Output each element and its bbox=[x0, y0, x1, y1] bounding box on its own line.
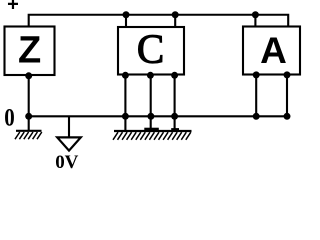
svg-text:C: C bbox=[137, 26, 164, 72]
junction dot bottom rail at A right lead bbox=[284, 113, 291, 120]
terminal foot C middle lead bbox=[144, 128, 159, 131]
wire C right top lead bbox=[174, 15, 176, 27]
wire A right bottom lead bbox=[286, 75, 288, 117]
wire C middle bottom lead to ground bbox=[150, 75, 152, 132]
chassis ground middle (under C leads) bbox=[113, 131, 192, 140]
wire bottom 0V rail bbox=[29, 115, 288, 117]
junction dot bottom rail at A left lead bbox=[253, 113, 260, 120]
wire top supply rail bbox=[29, 15, 289, 26]
junction dot bottom rail at C middle lead bbox=[147, 113, 154, 120]
junction dot bottom rail at C left lead bbox=[122, 113, 129, 120]
wire C left top lead bbox=[125, 15, 127, 27]
wire C left bottom lead to ground bbox=[124, 75, 126, 132]
svg-text:0V: 0V bbox=[55, 152, 78, 169]
svg-text:0: 0 bbox=[4, 105, 15, 132]
junction dot A box bottom terminal left bbox=[253, 71, 260, 78]
junction dot A box bottom terminal right bbox=[284, 71, 291, 78]
junction dot top rail at C right lead bbox=[172, 11, 179, 18]
junction dot Z box bottom terminal bbox=[25, 72, 32, 79]
svg-text:Z: Z bbox=[18, 30, 41, 72]
wire A left top lead bbox=[254, 15, 256, 26]
wire C right bottom lead to ground bbox=[174, 75, 176, 132]
junction dot top rail at C left lead bbox=[123, 11, 130, 18]
ground symbol 0V (triangle) bbox=[57, 117, 81, 151]
junction dot C box bottom terminal middle bbox=[147, 72, 154, 79]
block C (load) bbox=[118, 27, 184, 75]
wire Z bottom lead to ground bbox=[28, 75, 30, 131]
block Z (source) bbox=[5, 27, 55, 76]
junction dot bottom rail at Z lead bbox=[25, 113, 32, 120]
terminal foot C right lead bbox=[171, 128, 179, 131]
junction dot C box bottom terminal left bbox=[122, 72, 129, 79]
junction dot top rail at A left lead bbox=[252, 11, 259, 18]
block A (load) bbox=[243, 27, 300, 75]
svg-text:+: + bbox=[7, 0, 19, 16]
chassis ground left (under Z lead) bbox=[15, 131, 42, 139]
svg-text:A: A bbox=[260, 30, 287, 71]
junction dot bottom rail at C right lead bbox=[171, 113, 178, 120]
wire A left bottom lead bbox=[255, 75, 257, 117]
junction dot C box bottom terminal right bbox=[171, 72, 178, 79]
